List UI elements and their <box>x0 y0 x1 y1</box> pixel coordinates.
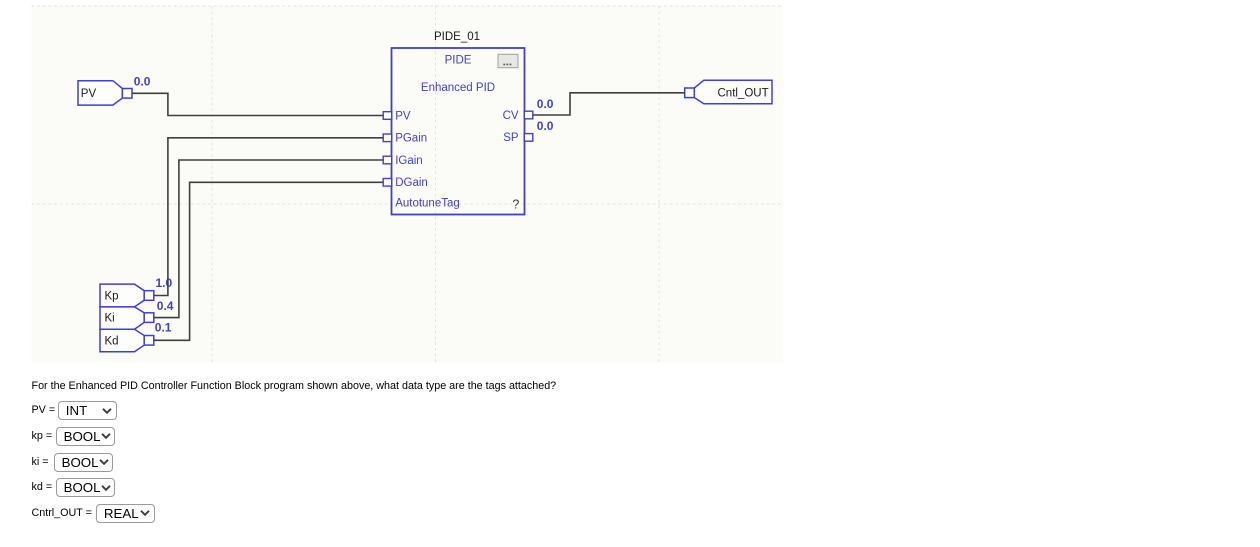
svg-text:SP: SP <box>503 132 519 144</box>
svg-text:?: ? <box>512 198 519 212</box>
pin CV <box>524 111 533 119</box>
pin SP <box>524 134 533 142</box>
connector square of Kp tag <box>144 291 154 301</box>
connector square of Cntl_OUT tag <box>685 88 695 98</box>
output reference tag Cntl_OUT <box>694 80 772 103</box>
pin PV <box>383 112 392 120</box>
svg-text:PIDE: PIDE <box>445 55 472 67</box>
connector square of Ki tag <box>144 313 154 323</box>
row kd <box>32 478 53 497</box>
svg-text:DGain: DGain <box>395 177 428 189</box>
svg-text:AutotuneTag: AutotuneTag <box>395 198 460 210</box>
svg-text:Kp: Kp <box>105 291 119 303</box>
wire Ki tag to IGain pin <box>154 160 383 318</box>
input reference tag PV <box>78 81 122 105</box>
pin DGain <box>383 179 392 187</box>
svg-text:PGain: PGain <box>395 133 427 145</box>
wire Kd tag to DGain pin <box>154 182 383 340</box>
svg-text:PV: PV <box>81 88 97 100</box>
pin PGain <box>383 134 392 142</box>
connector square of Kd tag <box>144 336 154 346</box>
svg-text:CV: CV <box>503 110 519 122</box>
wire PV tag to PV pin <box>132 93 383 115</box>
row kp <box>32 427 53 446</box>
row PV <box>32 401 56 420</box>
svg-text:PIDE_01: PIDE_01 <box>434 31 480 43</box>
svg-text:1.0: 1.0 <box>156 276 173 290</box>
svg-text:0.1: 0.1 <box>155 321 172 335</box>
pin IGain <box>383 156 392 164</box>
svg-text:Ki: Ki <box>105 313 115 325</box>
svg-text:IGain: IGain <box>395 155 423 167</box>
svg-text:PV: PV <box>395 110 411 122</box>
diagram canvas background <box>32 6 784 363</box>
input reference tag Kd <box>100 329 144 352</box>
row ki <box>32 453 49 472</box>
svg-text:0.0: 0.0 <box>537 97 554 111</box>
question text <box>32 380 557 392</box>
svg-text:0.0: 0.0 <box>134 75 151 89</box>
browse button on block <box>498 54 518 67</box>
input reference tag Ki <box>100 307 144 329</box>
svg-text:Enhanced PID: Enhanced PID <box>421 82 495 94</box>
svg-text:Cntl_OUT: Cntl_OUT <box>718 88 769 100</box>
input reference tag Kp <box>100 284 144 307</box>
svg-text:Kd: Kd <box>105 335 119 347</box>
function block PIDE_01 <box>392 31 525 215</box>
wire Kp tag to PGain pin <box>154 138 383 296</box>
svg-text:0.4: 0.4 <box>157 299 174 313</box>
svg-text:0.0: 0.0 <box>537 119 554 133</box>
wire CV pin to Cntl_OUT tag <box>533 93 685 115</box>
connector square of PV tag <box>122 89 132 99</box>
row Cntrl_OUT <box>32 504 92 523</box>
